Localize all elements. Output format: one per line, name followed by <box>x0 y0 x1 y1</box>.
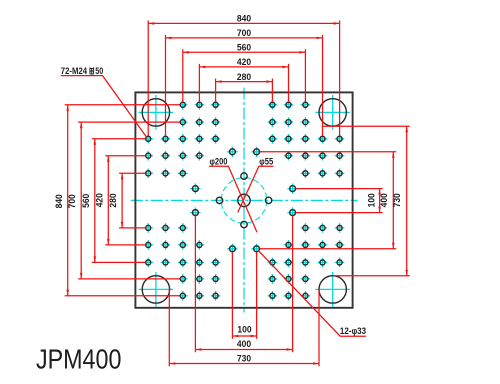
ejector hole axis W <box>216 197 222 203</box>
depth symbol glyph (dense CJK-like block) <box>90 67 94 74</box>
svg-text:420: 420 <box>94 193 104 207</box>
left dim 840 line <box>67 105 69 296</box>
svg-text:840: 840 <box>237 14 251 24</box>
svg-text:φ55: φ55 <box>259 157 273 167</box>
svg-text:730: 730 <box>237 353 251 363</box>
platen plate outline <box>135 92 352 307</box>
ext line col E' for dim 840 <box>339 20 341 136</box>
top dim 560 line <box>183 51 306 53</box>
anchor line row b' for left dim 420 <box>105 244 145 246</box>
anchor line from SE ejector hole for right dim 100 <box>296 212 383 214</box>
dimension texts <box>54 14 402 364</box>
Phi55 locating ring hole <box>238 194 250 206</box>
right dim 100 line <box>379 189 381 213</box>
svg-text:100: 100 <box>366 193 376 207</box>
svg-text:12-φ33: 12-φ33 <box>340 326 366 336</box>
anchor line bottom for right dim 730 <box>334 275 410 277</box>
ext line col D for dim 700 <box>165 35 167 136</box>
svg-text:730: 730 <box>392 193 402 207</box>
horizontal centerline <box>131 199 358 201</box>
svg-text:100: 100 <box>237 324 251 334</box>
svg-text:72-M24: 72-M24 <box>61 66 87 76</box>
anchor line row c for left dim 560 <box>92 138 146 140</box>
vertical centerline <box>243 88 245 313</box>
ext line col A' for dim 280 <box>271 79 273 103</box>
top dim 280 line <box>216 81 273 83</box>
ext line right for bottom dim 100 <box>256 252 258 339</box>
left dim 560 line <box>94 139 96 263</box>
ejector hole axis S <box>241 221 247 227</box>
Phi200 bolt circle (dashed cyan) <box>221 178 267 224</box>
12x Phi33 ejector holes: axis N <box>241 173 247 179</box>
tie-bar circle center mark top-left <box>139 95 174 130</box>
top dim 700 line <box>166 37 323 39</box>
svg-text:700: 700 <box>237 28 251 38</box>
anchor line row d' for left dim 700 <box>78 278 180 280</box>
svg-text:400: 400 <box>379 193 389 207</box>
left dim 420 line <box>107 156 109 245</box>
leader 12-Phi33 <box>259 251 366 337</box>
svg-text:φ200: φ200 <box>210 157 228 167</box>
dimension arrowheads <box>66 22 408 365</box>
right dim 730 line <box>406 126 408 276</box>
tie-bar hole top-left <box>142 99 169 126</box>
anchor line top for right dim 730 <box>323 125 410 127</box>
leader Phi55 <box>238 166 274 212</box>
svg-text:50: 50 <box>95 66 103 76</box>
ext line col C for dim 560 <box>182 49 184 102</box>
ejector hole axis E <box>265 197 271 203</box>
svg-text:280: 280 <box>108 193 118 207</box>
ejector hole pairs with center marks <box>190 147 298 254</box>
svg-text:840: 840 <box>54 194 64 208</box>
anchor line row b for left dim 420 <box>105 155 145 157</box>
ext line col E for dim 840 <box>147 20 149 136</box>
ext line right for bottom dim 400 <box>292 216 294 353</box>
ext line right for bottom dim 730 <box>318 289 320 366</box>
left dim 700 line <box>80 122 82 279</box>
svg-text:560: 560 <box>237 43 251 53</box>
ext line col A for dim 280 <box>215 79 217 103</box>
anchor line row a' for left dim 280 <box>119 227 146 229</box>
tie-bar circle center mark bottom-right <box>315 272 350 307</box>
ext line left for bottom dim 400 <box>194 216 196 353</box>
bottom dim 100 line <box>232 335 256 337</box>
tie-bar circle center mark bottom-left <box>139 272 174 307</box>
anchor line row c' for left dim 560 <box>92 261 146 263</box>
svg-text:280: 280 <box>237 72 251 82</box>
tie-bar hole bottom-left <box>142 276 169 303</box>
anchor line bottom for right dim 400 <box>260 248 397 250</box>
bottom dim 730 line <box>169 363 319 365</box>
anchor line row e for left dim 840 <box>65 104 181 106</box>
svg-text:560: 560 <box>81 194 91 208</box>
svg-text:400: 400 <box>237 339 251 349</box>
leader Phi200 <box>209 166 257 232</box>
ext line left for bottom dim 100 <box>231 252 233 339</box>
ext line col C' for dim 560 <box>304 49 306 102</box>
anchor line row a for left dim 280 <box>119 172 146 174</box>
ext line col D' for dim 700 <box>322 35 324 136</box>
svg-text:420: 420 <box>237 57 251 67</box>
tie-bar hole top-right <box>319 99 346 126</box>
anchor line top for right dim 400 <box>260 151 397 153</box>
ext line left for bottom dim 730 <box>168 289 170 366</box>
tie-bar circle center mark top-right <box>315 95 350 130</box>
top dim 840 line <box>148 22 339 24</box>
ext line col B for dim 420 <box>198 64 200 102</box>
tie-bar hole bottom-right <box>319 276 346 303</box>
anchor line row d for left dim 700 <box>78 121 180 123</box>
svg-text:JPM400: JPM400 <box>36 344 121 375</box>
ext line col B' for dim 420 <box>288 64 290 102</box>
anchor line from NE ejector hole for right dim 100 <box>296 188 383 190</box>
right dim 400 line <box>392 152 394 249</box>
svg-text:700: 700 <box>67 194 77 208</box>
72x M24 mounting holes grid with cyan center marks <box>143 100 344 301</box>
left dim 280 line <box>121 173 123 228</box>
top dim 420 line <box>199 66 288 68</box>
anchor line row e' for left dim 840 <box>65 295 181 297</box>
leader 72-M24 <box>61 76 146 137</box>
bottom dim 400 line <box>195 349 292 351</box>
